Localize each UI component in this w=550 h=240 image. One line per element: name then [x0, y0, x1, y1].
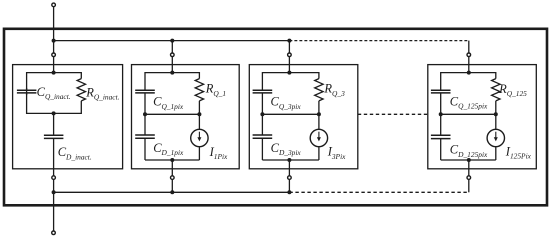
current source I125Pix	[487, 129, 504, 146]
wire CD_inact to box1 bottom terminal	[53, 138, 55, 175]
box4 upper loop wires	[441, 73, 496, 115]
terminal node box3 bottom	[288, 176, 292, 180]
wire box4 mid to current source	[495, 114, 497, 129]
junction node box3 bottom	[287, 158, 291, 162]
wire CD_1pix to box2 bottom rail	[144, 138, 146, 160]
subcircuit box 2 (1 pixel)	[132, 65, 240, 169]
box3 bottom rail wire	[262, 159, 319, 161]
wire dashed bus corner down to box4 terminal	[468, 41, 470, 53]
svg-text:RQ_125: RQ_125	[498, 82, 527, 98]
junction node box2 bottom	[170, 158, 174, 162]
svg-text:CD_125pix: CD_125pix	[450, 143, 488, 159]
svg-text:I3Pix: I3Pix	[327, 145, 346, 161]
subcircuit box 1 (inactive pixel)	[13, 65, 123, 169]
svg-text:RQ_1: RQ_1	[205, 82, 226, 98]
terminal node box3 top	[288, 53, 292, 57]
svg-text:CQ_inact.: CQ_inact.	[37, 85, 71, 101]
terminal node box2 bottom	[171, 176, 175, 180]
svg-text:CD_3pix: CD_3pix	[271, 141, 302, 157]
wire box3 mid to current source	[318, 114, 320, 129]
capacitor CD_125pix	[431, 135, 451, 138]
wire top terminal to top bus	[53, 7, 55, 41]
top bus wire (dashed continuation)	[289, 40, 468, 42]
svg-text:I1Pix: I1Pix	[209, 145, 228, 161]
wire box1 loop bottom to CD_inact	[53, 113, 55, 135]
svg-text:RQ_inact.: RQ_inact.	[85, 86, 119, 102]
bottom bus wire (dashed continuation)	[289, 191, 468, 193]
junction node bottom bus box1	[52, 190, 56, 194]
box2 bottom rail wire	[145, 159, 199, 161]
junction node bus-box3	[287, 39, 291, 43]
terminal bottom output	[52, 231, 56, 235]
wire current source to box2 bottom rail	[198, 147, 200, 160]
box4 mid rail wire	[441, 113, 496, 115]
top bus wire (solid)	[54, 40, 290, 42]
junction node box2 mid left	[143, 112, 147, 116]
terminal node box1 top	[52, 53, 56, 57]
resistor RQ_1	[195, 79, 203, 101]
box2 upper loop wires	[145, 73, 199, 115]
svg-text:CQ_1pix: CQ_1pix	[153, 95, 184, 111]
subcircuit box 4 (125 pixels)	[428, 65, 537, 169]
current source I1Pix	[191, 129, 208, 146]
junction node box3 mid left	[260, 112, 264, 116]
capacitor CD_3pix	[253, 135, 273, 138]
svg-text:I125Pix: I125Pix	[505, 145, 532, 161]
wire box1 top terminal into box	[53, 57, 55, 73]
junction node box1 loop top	[52, 71, 56, 75]
wire box4 top terminal into box	[468, 57, 470, 73]
wire current source to box3 bottom rail	[318, 147, 320, 160]
junction node box3 mid right	[317, 112, 321, 116]
wire box4 bottom terminal to bottom bus	[468, 180, 470, 193]
terminal node box4 top	[467, 53, 471, 57]
wire box1 bottom terminal to bottom bus	[53, 180, 55, 193]
wire bus to box2 top terminal	[171, 41, 173, 53]
junction node bottom bus box2	[170, 190, 174, 194]
current source I3Pix	[310, 129, 327, 146]
wire box3 bottom terminal to bottom bus	[288, 180, 290, 193]
junction node box4 mid left	[439, 112, 443, 116]
bottom bus wire (solid)	[54, 191, 290, 193]
resistor RQ_3	[315, 79, 323, 101]
svg-text:RQ_3: RQ_3	[323, 82, 345, 98]
box1 parallel loop wires	[27, 73, 82, 114]
junction node box3 loop top	[287, 71, 291, 75]
junction node box1 loop bottom	[52, 111, 56, 115]
resistor RQ_inact	[77, 79, 85, 101]
capacitor CQ_125pix	[431, 90, 451, 93]
junction node bus-box2	[170, 39, 174, 43]
svg-text:CQ_3pix: CQ_3pix	[271, 95, 302, 111]
capacitor CQ_1pix	[135, 90, 155, 93]
box2 mid rail wire	[145, 113, 199, 115]
wire box3 bottom rail to bottom terminal	[288, 160, 290, 176]
wire CD_125pix to box4 bottom rail	[440, 139, 442, 160]
wire bus to box1 top terminal	[53, 41, 55, 53]
capacitor CD_inact	[44, 135, 64, 138]
capacitor CQ_3pix	[253, 90, 273, 93]
wire box4 mid to CD_125pix	[440, 114, 442, 135]
wire box3 top terminal into box	[288, 57, 290, 73]
wire box2 bottom terminal to bottom bus	[171, 180, 173, 193]
dashed wire box3 mid to box4 mid	[358, 113, 428, 115]
svg-text:CQ_125pix: CQ_125pix	[450, 94, 488, 110]
svg-text:CD_1pix: CD_1pix	[153, 141, 184, 157]
capacitor CQ_inact	[17, 88, 37, 95]
junction node box4 bottom	[467, 158, 471, 162]
wire box2 bottom rail to bottom terminal	[171, 160, 173, 176]
wire box2 top terminal into box	[171, 57, 173, 73]
junction node box2 mid right	[197, 112, 201, 116]
terminal node box2 top	[171, 53, 175, 57]
wire box3 mid to CD_3pix	[261, 114, 263, 135]
wire box4 bottom rail to bottom terminal	[468, 160, 470, 176]
junction node box4 loop top	[467, 71, 471, 75]
resistor RQ_125	[492, 79, 500, 101]
terminal node box1 bottom	[52, 176, 56, 180]
box3 mid rail wire	[262, 113, 319, 115]
junction node bottom bus box3	[287, 190, 291, 194]
junction node box4 mid right	[494, 112, 498, 116]
wire current source to box4 bottom rail	[495, 147, 497, 160]
wire box2 mid to current source	[198, 114, 200, 129]
wire CD_3pix to box3 bottom rail	[261, 138, 263, 160]
terminal node box4 bottom	[467, 176, 471, 180]
wire bus to box3 top terminal	[288, 41, 290, 53]
subcircuit box 3 (3 pixels)	[249, 65, 357, 169]
wire bottom bus to bottom terminal	[53, 192, 55, 231]
wire box2 mid to CD_1pix	[144, 114, 146, 135]
box4 bottom rail wire	[441, 159, 496, 161]
junction node box2 loop top	[170, 71, 174, 75]
terminal top input	[52, 3, 56, 7]
box3 upper loop wires	[262, 73, 319, 115]
svg-text:CD_inact.: CD_inact.	[58, 145, 92, 161]
outer shield box	[4, 29, 547, 206]
junction node bus-box1	[52, 39, 56, 43]
capacitor CD_1pix	[135, 135, 155, 138]
